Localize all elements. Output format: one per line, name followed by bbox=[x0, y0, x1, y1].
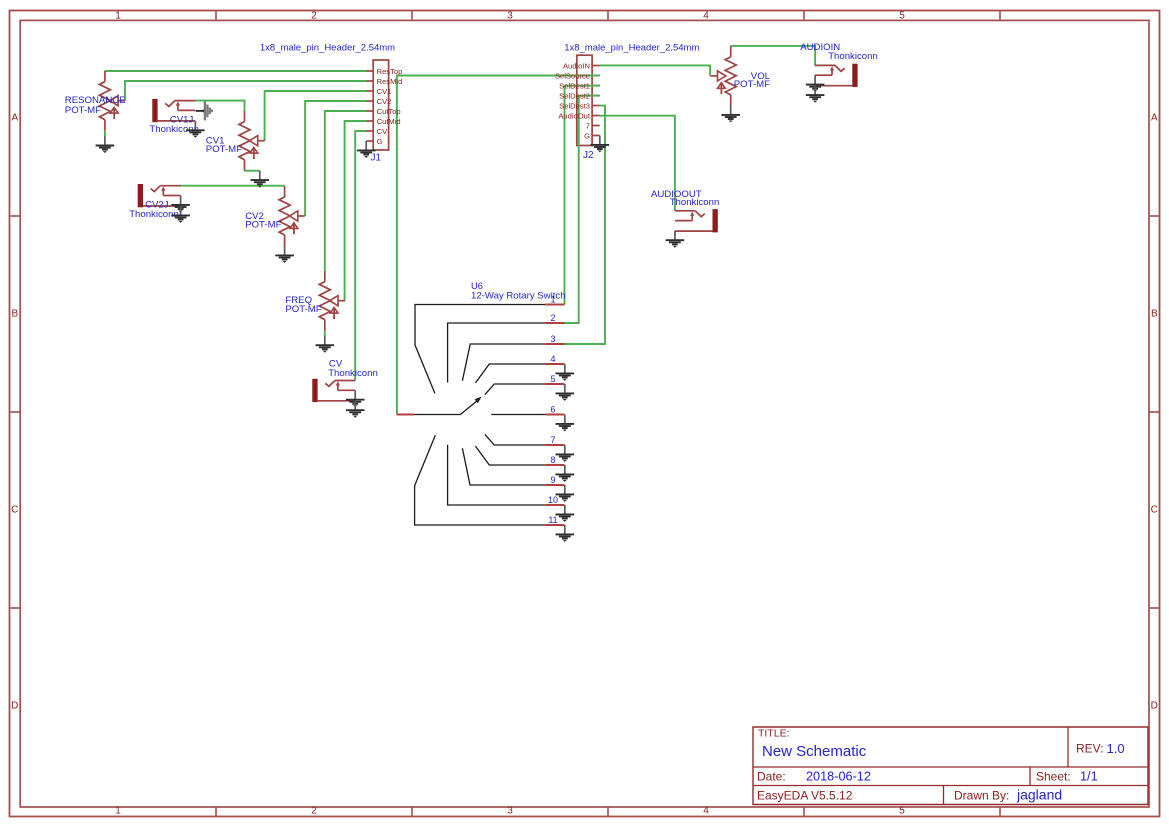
svg-text:1/1: 1/1 bbox=[1080, 769, 1098, 783]
svg-text:SelDest3: SelDest3 bbox=[559, 101, 590, 110]
U6 contact 8 bbox=[476, 446, 546, 465]
svg-text:2: 2 bbox=[311, 11, 317, 22]
svg-text:B: B bbox=[11, 308, 18, 319]
J1 pin name labels bbox=[377, 67, 403, 146]
J2 designator bbox=[583, 150, 594, 161]
U6 pin 9 stub bbox=[545, 484, 564, 486]
svg-text:2: 2 bbox=[550, 313, 555, 323]
wire net CV2: CV2 pot wiper to J1.CV2 bbox=[305, 101, 366, 216]
svg-text:1: 1 bbox=[115, 806, 121, 817]
svg-text:New Schematic: New Schematic bbox=[762, 743, 867, 760]
svg-text:1: 1 bbox=[550, 294, 555, 304]
ground at U6 pin 6 bbox=[556, 415, 575, 432]
J1 value label bbox=[260, 42, 395, 53]
U6 pin 8 stub bbox=[545, 464, 564, 466]
wire net ResMid: RESONANCE wiper to J1.ResMid bbox=[125, 81, 367, 101]
svg-text:9: 9 bbox=[550, 475, 555, 485]
jack CV Thonkiconn bbox=[312, 379, 355, 402]
potentiometer FREQ POT-MF bbox=[319, 271, 345, 331]
ground at U6 pin 11 bbox=[556, 525, 575, 542]
jack CV2J Thonkiconn bbox=[138, 184, 181, 207]
ground below CV2 bbox=[275, 246, 294, 263]
svg-text:CV2: CV2 bbox=[377, 97, 392, 106]
svg-text:G: G bbox=[377, 137, 383, 146]
svg-text:2018-06-12: 2018-06-12 bbox=[806, 769, 871, 783]
U6 pin 5 stub bbox=[545, 383, 564, 385]
U6 pin 2 number bbox=[550, 313, 555, 323]
AUDIOOUT labels bbox=[651, 189, 719, 208]
U6 contact 10 bbox=[448, 445, 546, 505]
U6 pin 2 stub bbox=[545, 322, 564, 324]
svg-text:CutMid: CutMid bbox=[377, 117, 401, 126]
ground at CV sleeve bbox=[346, 401, 365, 418]
svg-text:SelDest2: SelDest2 bbox=[559, 91, 590, 100]
svg-text:D: D bbox=[11, 700, 18, 711]
svg-text:A: A bbox=[11, 112, 18, 123]
wire net VOL top to AUDIOIN jack tip bbox=[731, 46, 815, 66]
wire stub RESONANCE bottom to ground bbox=[104, 131, 106, 136]
svg-text:5: 5 bbox=[899, 11, 905, 22]
U6 contact 3 bbox=[462, 344, 545, 381]
svg-text:Date:: Date: bbox=[757, 769, 786, 783]
svg-text:11: 11 bbox=[548, 515, 557, 525]
svg-text:Thonkiconn: Thonkiconn bbox=[670, 197, 720, 208]
svg-text:ResMid: ResMid bbox=[377, 77, 403, 86]
svg-text:B: B bbox=[1151, 308, 1158, 319]
U6 pin 3 number bbox=[550, 334, 555, 344]
wire net SelDest3: J2.SelDest3 to U6 pin3 bbox=[565, 106, 606, 344]
jack AUDIOIN Thonkiconn (mirrored) bbox=[815, 64, 858, 87]
U6 pin 7 stub bbox=[545, 444, 564, 446]
ground at CV1J sleeve bbox=[186, 121, 205, 138]
svg-text:10: 10 bbox=[548, 495, 558, 505]
svg-text:AudioIN: AudioIN bbox=[563, 61, 590, 70]
svg-text:CutTop: CutTop bbox=[377, 107, 401, 116]
svg-text:CV1: CV1 bbox=[377, 87, 392, 96]
svg-text:POT-MF: POT-MF bbox=[734, 79, 770, 90]
svg-text:C: C bbox=[1151, 504, 1158, 515]
svg-text:POT-MF: POT-MF bbox=[206, 144, 242, 155]
CV1J labels bbox=[149, 115, 199, 135]
CV1 labels bbox=[206, 136, 242, 155]
ground at J1 pin G bbox=[357, 141, 376, 158]
U6 pin 10 stub bbox=[545, 504, 564, 506]
RESONANCE labels bbox=[65, 95, 126, 116]
ground at CV2J switch pin bbox=[171, 196, 190, 213]
wire net AudioOut: J2.AudioOut to AUDIOOUT tip bbox=[600, 116, 675, 211]
svg-text:1x8_male_pin_Header_2.54mm: 1x8_male_pin_Header_2.54mm bbox=[260, 42, 395, 53]
U6 contact 5 bbox=[485, 384, 545, 395]
ground at CV switch pin bbox=[346, 390, 365, 407]
svg-text:3: 3 bbox=[550, 334, 555, 344]
svg-text:5: 5 bbox=[899, 806, 905, 817]
U6 contact 4 bbox=[476, 364, 546, 383]
J2 pin name labels bbox=[555, 61, 591, 140]
J2 value label bbox=[564, 42, 699, 53]
svg-text:4: 4 bbox=[550, 354, 555, 364]
U6 pin 8 number bbox=[550, 455, 555, 465]
svg-text:jagland: jagland bbox=[1016, 786, 1062, 802]
svg-text:POT-MF: POT-MF bbox=[245, 219, 281, 230]
ground at AUDIOIN switch pin bbox=[806, 75, 825, 92]
wire net SelDest1: J2.SelDest1 to U6 pin1 bbox=[565, 86, 600, 305]
potentiometer CV2 POT-MF bbox=[279, 186, 305, 246]
potentiometer RESONANCE POT-MF bbox=[99, 71, 125, 131]
svg-text:ResTop: ResTop bbox=[377, 67, 403, 76]
svg-text:G: G bbox=[584, 131, 590, 140]
wire net CV1: CV1 pot wiper to J1.CV1 bbox=[265, 91, 367, 141]
ground at U6 pin 9 bbox=[556, 485, 575, 502]
svg-text:CV: CV bbox=[377, 127, 388, 136]
U6 pin 10 number bbox=[548, 495, 558, 505]
jack CV1J Thonkiconn bbox=[152, 99, 195, 122]
connector header J2 1x8_male_pin body bbox=[577, 55, 600, 145]
U6 pin 11 number bbox=[548, 515, 557, 525]
U6 pin 4 number bbox=[550, 354, 555, 364]
wire net SelDest2: J2.SelDest2 to U6 pin2 bbox=[565, 96, 600, 323]
AUDIOIN labels bbox=[800, 42, 878, 62]
U6 pin 5 number bbox=[550, 374, 555, 384]
svg-text:Drawn By:: Drawn By: bbox=[954, 788, 1009, 802]
ground at J2 pin G bbox=[591, 136, 610, 153]
svg-text:6: 6 bbox=[550, 404, 555, 414]
U6 pin 6 number bbox=[550, 404, 555, 414]
ground below RESONANCE bbox=[96, 136, 115, 153]
U6 pin 4 stub bbox=[545, 363, 564, 365]
U6 pin 3 stub bbox=[545, 343, 564, 345]
svg-text:J1: J1 bbox=[371, 153, 382, 164]
svg-text:U6: U6 bbox=[471, 281, 483, 291]
svg-text:5: 5 bbox=[550, 374, 555, 384]
U6 contact 7 bbox=[485, 434, 545, 445]
svg-text:Sheet:: Sheet: bbox=[1036, 769, 1071, 783]
svg-text:4: 4 bbox=[703, 806, 709, 817]
U6 pin 6 stub bbox=[545, 414, 564, 416]
wire net CV1J tip to CV1 pot top bbox=[195, 101, 245, 111]
title block lines bbox=[753, 727, 1148, 805]
U6 contact 6 bbox=[491, 414, 545, 416]
svg-text:TITLE:: TITLE: bbox=[758, 728, 790, 740]
rotated ground at CV1J switch pin bbox=[196, 101, 212, 120]
U6 contact 9 bbox=[462, 448, 545, 485]
wire net AudioIN: J2.AudioIN to VOL wiper bbox=[600, 65, 710, 76]
ground at CV2J sleeve bbox=[171, 206, 190, 223]
svg-text:REV:: REV: bbox=[1076, 742, 1104, 756]
wire net ResTop: RESONANCE top to J1.ResTop bbox=[105, 70, 367, 72]
ground at U6 pin 4 bbox=[556, 364, 575, 381]
svg-text:SelSource: SelSource bbox=[555, 71, 590, 80]
svg-text:J2: J2 bbox=[583, 150, 594, 161]
svg-text:AudioOut: AudioOut bbox=[558, 111, 591, 120]
FREQ labels bbox=[285, 295, 321, 315]
ground at U6 pin 5 bbox=[556, 384, 575, 401]
U6 labels bbox=[471, 281, 566, 302]
J1 designator bbox=[371, 153, 382, 164]
wire stub CV1 bottom to ground bbox=[245, 170, 260, 172]
ground below FREQ bbox=[316, 336, 335, 353]
potentiometer VOL POT-MF (mirrored) bbox=[711, 46, 737, 106]
U6 rotor arm with arrow bbox=[414, 397, 481, 415]
CV labels bbox=[328, 359, 378, 379]
ground at AUDIOIN sleeve bbox=[806, 86, 825, 103]
svg-text:3: 3 bbox=[507, 11, 513, 22]
U6 contact 1 bbox=[415, 305, 545, 394]
connector header J1 1x8_male_pin body bbox=[367, 60, 389, 150]
U6 contact 2 bbox=[448, 323, 546, 383]
svg-text:C: C bbox=[11, 504, 18, 515]
wire net CV2J tip to CV2 pot top bbox=[180, 185, 285, 187]
U6 pin 1 number bbox=[550, 294, 555, 304]
svg-text:POT-MF: POT-MF bbox=[285, 304, 321, 315]
U6 pin 7 number bbox=[550, 435, 555, 445]
U6 pin 9 number bbox=[550, 475, 555, 485]
ground below VOL bbox=[721, 106, 740, 123]
svg-text:A: A bbox=[1151, 112, 1158, 123]
svg-text:4: 4 bbox=[703, 11, 709, 22]
svg-text:2: 2 bbox=[311, 806, 317, 817]
svg-text:3: 3 bbox=[507, 806, 513, 817]
ground at U6 pin 8 bbox=[556, 465, 575, 482]
U6 pin 1 stub bbox=[545, 304, 564, 306]
svg-text:Thonkiconn: Thonkiconn bbox=[828, 51, 878, 62]
CV2 labels bbox=[245, 211, 281, 230]
svg-text:1x8_male_pin_Header_2.54mm: 1x8_male_pin_Header_2.54mm bbox=[564, 42, 699, 53]
svg-text:7: 7 bbox=[586, 121, 590, 130]
ground at U6 pin 10 bbox=[556, 505, 575, 522]
potentiometer CV1 POT-MF bbox=[239, 111, 265, 171]
U6 contact 11 bbox=[415, 435, 546, 525]
svg-text:POT-MF: POT-MF bbox=[65, 105, 101, 116]
ground at U6 pin 7 bbox=[556, 445, 575, 462]
wire stub CV2 bottom to ground bbox=[284, 245, 286, 247]
svg-text:Thonkiconn: Thonkiconn bbox=[328, 368, 378, 379]
wire net CV: J1.CV to CV jack tip bbox=[355, 131, 366, 381]
svg-text:1: 1 bbox=[115, 11, 121, 22]
wire net SelSource: J2.SelSource to U6 rotor bbox=[397, 76, 600, 415]
svg-text:SelDest1: SelDest1 bbox=[559, 81, 590, 90]
wire net CutMid: J1.CutMid to FREQ wiper bbox=[345, 121, 367, 301]
U6 pin 11 stub bbox=[545, 524, 564, 526]
ground at AUDIOOUT sleeve bbox=[666, 231, 685, 248]
jack AUDIOOUT Thonkiconn (mirrored) bbox=[675, 209, 718, 232]
svg-text:1.0: 1.0 bbox=[1107, 741, 1125, 756]
svg-text:8: 8 bbox=[550, 455, 555, 465]
title block text bbox=[757, 728, 1125, 803]
wire net CutTop: J1.CutTop to FREQ top bbox=[325, 111, 367, 271]
U6 rotor pin stub bbox=[397, 414, 415, 416]
svg-text:7: 7 bbox=[550, 435, 555, 445]
wire stub FREQ bottom to ground bbox=[324, 331, 326, 336]
ground below CV1 bbox=[250, 171, 269, 188]
svg-text:D: D bbox=[1151, 700, 1158, 711]
VOL labels bbox=[734, 71, 771, 90]
svg-text:EasyEDA V5.5.12: EasyEDA V5.5.12 bbox=[757, 788, 853, 802]
CV2J labels bbox=[129, 199, 179, 220]
